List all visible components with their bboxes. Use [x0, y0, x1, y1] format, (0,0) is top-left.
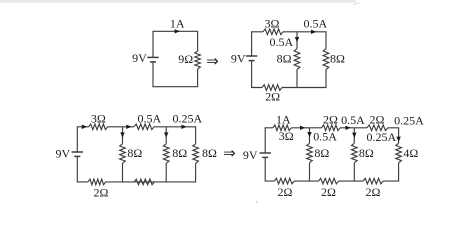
resistor bottom middle circuit 3	[134, 179, 154, 185]
svg-text:9Ω: 9Ω	[178, 52, 193, 66]
svg-text:0.5A: 0.5A	[303, 17, 327, 31]
wire arrow 0.5A top right circuit 2	[311, 30, 316, 34]
arrow into right branch circuit 4	[396, 137, 400, 142]
resistor 9Ω circuit 1	[195, 51, 201, 69]
svg-text:9V: 9V	[243, 148, 258, 162]
svg-text:0.5A: 0.5A	[341, 113, 365, 127]
resistor 2Ω bottom middle circuit 4	[319, 178, 339, 184]
resistor 8Ω branch 2 circuit 4	[352, 143, 358, 163]
arrow into branch A circuit 3	[120, 132, 124, 137]
svg-text:⇒: ⇒	[223, 146, 236, 162]
resistor 3Ω top circuit 2	[263, 29, 283, 35]
resistor 2Ω bottom right circuit 4	[363, 178, 383, 184]
svg-text:2Ω: 2Ω	[94, 185, 109, 199]
resistor 2Ω top right circuit 4	[367, 125, 388, 131]
svg-text:2Ω: 2Ω	[323, 113, 338, 127]
svg-text:8Ω: 8Ω	[202, 146, 217, 160]
resistor 8Ω branch 1 circuit 4	[307, 143, 313, 163]
svg-text:8Ω: 8Ω	[330, 51, 345, 65]
svg-text:2Ω: 2Ω	[365, 185, 380, 199]
svg-text:1A: 1A	[276, 113, 291, 127]
svg-text:3Ω: 3Ω	[91, 111, 106, 125]
svg-text:2Ω: 2Ω	[277, 185, 292, 199]
wire middle branch circuit 2	[296, 32, 298, 88]
resistor 2Ω bottom circuit 2	[262, 85, 282, 91]
resistor 8Ω middle circuit 2	[294, 49, 300, 70]
wire arrow 1A current direction	[175, 29, 180, 33]
arrow into branch B circuit 3	[164, 132, 168, 137]
wire arrow after battery circuit 3	[82, 125, 87, 129]
svg-text:8Ω: 8Ω	[172, 146, 187, 160]
svg-text:2Ω: 2Ω	[369, 113, 384, 127]
arrow into branch 1 circuit 4	[307, 132, 311, 137]
wire branch node 1 circuit 4	[309, 128, 311, 181]
svg-text:8Ω: 8Ω	[277, 51, 292, 65]
svg-text:8Ω: 8Ω	[127, 146, 142, 160]
svg-text:0.25A: 0.25A	[172, 111, 202, 125]
wire arrow 0.5A circuit 4	[345, 126, 350, 130]
svg-text:2Ω: 2Ω	[265, 89, 280, 103]
svg-text:8Ω: 8Ω	[359, 146, 374, 160]
svg-text:1A: 1A	[170, 17, 185, 31]
resistor 3Ω top circuit 3	[89, 124, 108, 130]
wire loop circuit 1	[153, 31, 198, 86]
svg-text:9V: 9V	[132, 51, 147, 65]
arrow 0.5A into middle branch	[295, 37, 299, 42]
svg-text:2Ω: 2Ω	[321, 185, 336, 199]
wire branch node A circuit 3	[122, 127, 124, 182]
svg-text:9V: 9V	[231, 51, 246, 65]
svg-text:3Ω: 3Ω	[279, 129, 294, 143]
resistor 2Ω bottom left circuit 4	[274, 178, 294, 184]
wire branch node 2 circuit 4	[353, 128, 355, 181]
battery 9V source circuit 4	[260, 152, 271, 154]
battery 9V source circuit 2	[246, 55, 257, 57]
resistor 8Ω right circuit 2	[323, 49, 329, 70]
svg-text:4Ω: 4Ω	[403, 146, 418, 160]
resistor 8Ω branch A circuit 3	[120, 144, 126, 164]
wire arrow after 3Ω circuit 4	[300, 126, 305, 130]
wire loop circuit 2	[252, 32, 326, 88]
svg-text:⇒: ⇒	[206, 54, 219, 70]
wire arrow 0.25A segment circuit 3	[181, 125, 186, 129]
battery 9V source circuit 3	[72, 151, 83, 153]
svg-text:0.25A: 0.25A	[394, 113, 424, 127]
resistor 4Ω right circuit 4	[396, 143, 402, 163]
resistor 2Ω bottom circuit 3	[88, 179, 106, 185]
svg-text:3Ω: 3Ω	[265, 17, 280, 31]
resistor 3Ω top circuit 4	[273, 125, 292, 131]
resistor 2Ω top middle circuit 4	[322, 125, 341, 131]
svg-text:0.5A: 0.5A	[137, 111, 161, 125]
resistor top middle circuit 3	[134, 124, 154, 130]
svg-text:0.25A: 0.25A	[367, 130, 397, 144]
svg-text:9V: 9V	[56, 147, 71, 161]
resistor 8Ω right circuit 3	[193, 144, 199, 164]
svg-text:8Ω: 8Ω	[314, 146, 329, 160]
resistor 8Ω branch B circuit 3	[163, 144, 169, 164]
wire loop circuit 4	[265, 128, 398, 181]
wire loop circuit 3	[77, 127, 195, 182]
wire arrow 0.5A segment circuit 3	[126, 125, 131, 129]
wire branch node B circuit 3	[165, 127, 167, 182]
battery 9V source circuit 1	[147, 56, 158, 58]
svg-text:0.5A: 0.5A	[270, 35, 294, 49]
arrow into branch 2 circuit 4	[352, 133, 356, 138]
